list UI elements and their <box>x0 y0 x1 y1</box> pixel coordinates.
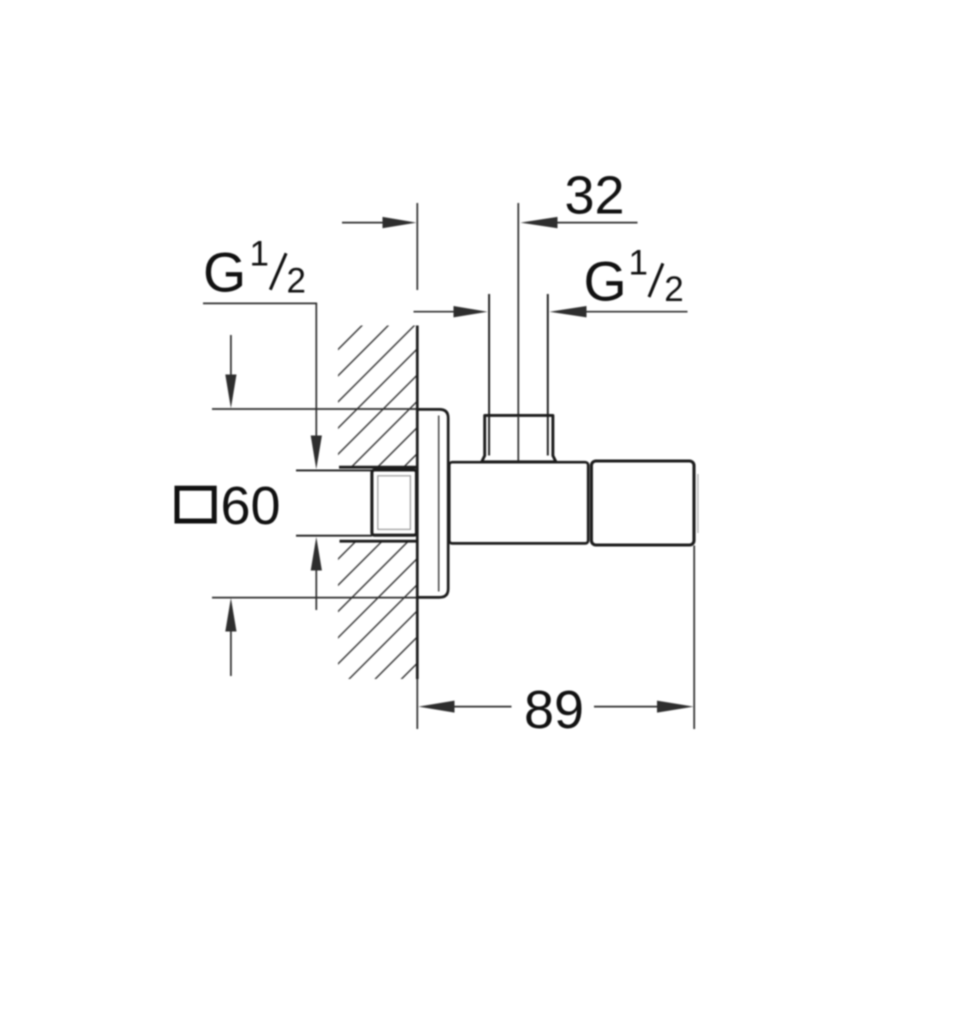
svg-text:89: 89 <box>524 680 584 740</box>
svg-text:G: G <box>203 241 246 303</box>
svg-text:32: 32 <box>564 165 624 225</box>
svg-text:2: 2 <box>287 261 306 300</box>
svg-text:1: 1 <box>629 244 648 283</box>
svg-text:60: 60 <box>221 476 281 536</box>
svg-text:2: 2 <box>664 270 683 309</box>
svg-text:1: 1 <box>250 234 269 273</box>
svg-text:G: G <box>584 251 627 313</box>
